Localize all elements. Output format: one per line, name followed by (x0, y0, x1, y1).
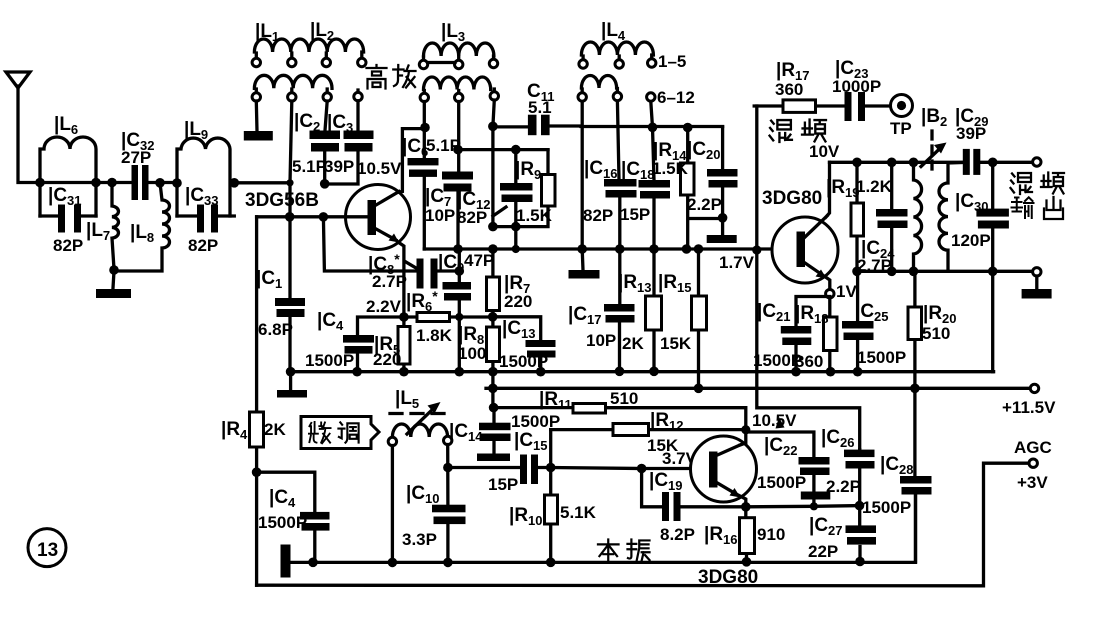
resistor R9 (488, 150, 555, 231)
terminal +11.5V (1002, 384, 1056, 417)
svg-text:10.5V: 10.5V (752, 411, 797, 430)
svg-text:6.8P: 6.8P (258, 320, 293, 339)
svg-text:1V: 1V (836, 282, 857, 301)
resistor R18 (795, 303, 837, 377)
svg-text:10.5V: 10.5V (357, 159, 402, 178)
resistor R20 (908, 271, 957, 393)
svg-text:1500P: 1500P (857, 348, 906, 367)
svg-text:39P: 39P (324, 157, 354, 176)
transistor Q2 3DG80 mixer (762, 188, 838, 283)
terminal AGC (1014, 438, 1052, 492)
svg-text:TP: TP (890, 119, 912, 138)
wire osc emitter (738, 495, 751, 512)
inductor L9 (172, 119, 239, 216)
inductor L4 (578, 20, 686, 101)
wire base 3DG56B (257, 212, 368, 222)
svg-text:1500P: 1500P (305, 351, 354, 370)
capacitor C14 (449, 403, 560, 461)
figure number 13 (28, 529, 66, 567)
resistor R8 (458, 317, 500, 377)
capacitor C23 (832, 58, 881, 121)
wire R8 node chain (491, 372, 494, 408)
ground under L1 terminal (244, 101, 273, 141)
capacitor C32 (121, 130, 155, 200)
svg-text:1–5: 1–5 (658, 52, 686, 71)
wire C19 row to C26 (746, 501, 865, 511)
svg-text:1500P: 1500P (757, 473, 806, 492)
svg-text:10V: 10V (809, 142, 840, 161)
capacitor C25 (842, 271, 906, 376)
svg-text:3DG56B: 3DG56B (245, 190, 319, 211)
capacitor C29 (955, 106, 989, 175)
wire bus line1 (286, 367, 994, 377)
svg-text:2.2V: 2.2V (366, 297, 402, 316)
capacitor C11 (493, 81, 581, 135)
wire mixer feed vertical (757, 106, 860, 450)
wire transformer top line (830, 158, 1033, 168)
capacitor C8 (323, 217, 464, 291)
svg-text:22P: 22P (808, 542, 838, 561)
svg-text:1.5K: 1.5K (652, 159, 689, 178)
capacitor C2 (292, 101, 340, 189)
svg-text:82P: 82P (188, 236, 218, 255)
label 高放 (367, 65, 416, 89)
wire emitter bus 249 (424, 244, 796, 272)
capacitor C12 (457, 145, 548, 249)
ground under C20 (707, 218, 737, 243)
svg-text:910: 910 (757, 525, 785, 544)
transistor Q3 3DG80 oscillator (691, 436, 759, 588)
resistor R10 (509, 468, 597, 563)
inductor L3 (419, 21, 498, 102)
capacitor C30 (951, 162, 1009, 276)
svg-text:5.1P: 5.1P (292, 157, 327, 176)
capacitor C17 (568, 249, 635, 376)
wire mixer collector (826, 162, 830, 217)
ground line1 left end (277, 372, 307, 398)
resistor R6 (404, 288, 498, 345)
inductor L8 (109, 183, 169, 275)
wire L5 left leg (388, 446, 398, 568)
transformer B2 secondary (939, 163, 963, 272)
svg-text:5.1K: 5.1K (560, 503, 597, 522)
capacitor C31 (40, 185, 96, 255)
svg-text:360: 360 (775, 80, 803, 99)
svg-text:1500P: 1500P (862, 498, 911, 517)
capacitor C15 (448, 430, 556, 494)
wire AGC return rail (257, 463, 1029, 586)
capacitor C3 (324, 101, 374, 184)
terminal mixer output bottom (1033, 268, 1041, 276)
svg-text:15P: 15P (488, 475, 518, 494)
svg-text:47P: 47P (464, 251, 494, 270)
svg-text:10P: 10P (586, 331, 616, 350)
test point TP (865, 95, 913, 139)
svg-text:510: 510 (922, 324, 950, 343)
capacitor C22 (746, 430, 831, 507)
svg-text:3DG80: 3DG80 (762, 188, 822, 209)
resistor R11 (494, 389, 746, 430)
wire ground rail 562 (281, 495, 916, 578)
transistor Q1 3DG56B (245, 159, 411, 250)
wire L3 terminal down (488, 100, 498, 227)
svg-text:39P: 39P (956, 124, 986, 143)
node emitter 2.2V (366, 297, 409, 322)
label 混频 10V (770, 120, 840, 161)
resistor R12 (551, 410, 751, 468)
svg-text:1000P: 1000P (832, 77, 881, 96)
wire L9 to L2 secondary (234, 181, 290, 184)
svg-text:510: 510 (610, 389, 638, 408)
label 10.5V with arrow (752, 411, 797, 430)
svg-text:5.1: 5.1 (528, 98, 552, 117)
wire antenna bus (35, 178, 177, 188)
svg-text:27P: 27P (121, 148, 151, 167)
svg-text:8.2P: 8.2P (660, 525, 695, 544)
ground under L7 L8 (96, 271, 131, 298)
svg-text:82P: 82P (53, 236, 83, 255)
ground on emitter bus (569, 249, 600, 279)
resistor R4 (221, 217, 286, 585)
capacitor C10 (402, 445, 466, 568)
capacitor C26 (821, 427, 875, 506)
svg-text:82P: 82P (457, 208, 487, 227)
svg-text:220: 220 (504, 292, 532, 311)
label 混频输出 (1011, 173, 1065, 220)
tuning arrow B2 (921, 106, 947, 174)
capacitor C6 (402, 102, 461, 250)
svg-text:15P: 15P (620, 205, 650, 224)
svg-text:2.2P: 2.2P (826, 477, 861, 496)
wire C30 to line1 (991, 271, 994, 371)
capacitor C24 (857, 162, 908, 276)
svg-text:1500P: 1500P (258, 513, 307, 532)
capacitor C20 (687, 127, 738, 223)
capacitor C4 upper (305, 310, 404, 372)
inductor L1 (252, 21, 366, 67)
svg-text:1.7V: 1.7V (719, 253, 755, 272)
wire collector 3DG56B (399, 123, 430, 192)
ground under output (1022, 276, 1052, 299)
svg-text:82P: 82P (583, 206, 613, 225)
capacitor C13 (493, 317, 556, 377)
svg-text:2K: 2K (264, 420, 286, 439)
svg-text:13: 13 (37, 540, 58, 561)
wire osc base (551, 449, 709, 473)
resistor R19 (826, 162, 893, 276)
svg-text:6–12: 6–12 (657, 88, 695, 107)
svg-text:1.8K: 1.8K (416, 326, 453, 345)
terminal mixer output top (1033, 158, 1041, 166)
resistor R16 (704, 507, 785, 567)
capacitor C33 (177, 185, 234, 255)
capacitor C9 (438, 249, 494, 372)
svg-text:120P: 120P (951, 231, 991, 250)
svg-text:15K: 15K (660, 334, 692, 353)
capacitor C1 (256, 183, 305, 372)
resistor R5 (373, 317, 410, 372)
svg-text:2K: 2K (622, 334, 644, 353)
inductor L7 (86, 183, 118, 270)
svg-text:2.2P: 2.2P (687, 195, 722, 214)
svg-text:10P: 10P (425, 206, 455, 225)
resistor R15 (658, 249, 707, 393)
antenna (6, 72, 40, 183)
wire transformer bottom line (857, 270, 1033, 273)
svg-text:1.5K: 1.5K (516, 206, 553, 225)
callout 微调 (301, 417, 379, 449)
svg-text:1.2K: 1.2K (856, 177, 893, 196)
wire emitter 3DG56B (398, 242, 404, 317)
wire bus line2 (486, 384, 1030, 394)
capacitor C19 (642, 469, 746, 545)
svg-text:3.3P: 3.3P (402, 530, 437, 549)
capacitor C28 (862, 388, 932, 561)
capacitor C18 (620, 102, 670, 254)
capacitor C4 lower (257, 472, 330, 567)
resistor R7 (487, 249, 533, 317)
wire mixer emitter 1V (824, 276, 857, 317)
terminal 6-12 (647, 88, 695, 107)
svg-text:2.7P: 2.7P (372, 272, 407, 291)
svg-text:+3V: +3V (1017, 473, 1048, 492)
inductor L5 (388, 388, 452, 446)
resistor R14 (652, 128, 723, 254)
wire osc collector (740, 430, 746, 445)
svg-text:220: 220 (373, 350, 401, 369)
resistor R13 (618, 249, 662, 376)
capacitor C27 (808, 506, 876, 567)
svg-text:+11.5V: +11.5V (1002, 398, 1056, 417)
transformer B2 primary (909, 162, 922, 276)
inductor L6 (40, 114, 96, 216)
wire top feed line (581, 123, 723, 133)
resistor R17 (754, 60, 845, 112)
label 本振 (598, 539, 650, 561)
capacitor C21 (753, 297, 830, 377)
inductor L2 secondary winding (252, 20, 362, 101)
capacitor C7 (425, 102, 473, 250)
svg-text:AGC: AGC (1014, 438, 1052, 457)
svg-text:100: 100 (458, 344, 486, 363)
wire L4 terminal to emitter bus (577, 102, 587, 254)
capacitor C16 (583, 101, 637, 254)
wire L2 terminal to base (286, 101, 293, 186)
